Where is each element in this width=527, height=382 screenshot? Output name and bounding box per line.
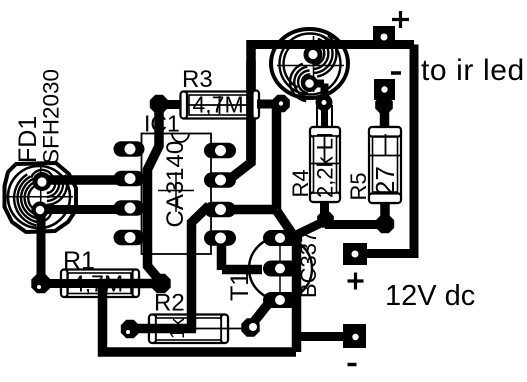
- IC1 pads left column pins 1-4: [114, 141, 145, 245]
- svg-text:CA3140: CA3140: [162, 141, 189, 228]
- wire R4 top lead: [321, 95, 329, 128]
- svg-text:R3: R3: [182, 66, 213, 93]
- pad R1 left: [31, 274, 50, 293]
- resistor R3 body: [181, 92, 259, 119]
- wire R3 right lead to node: [255, 100, 276, 109]
- node junction R3-left: [150, 95, 168, 113]
- wire node A vertical (R3-right to T1 junction): [272, 104, 282, 210]
- transistor T1 lead line: [279, 238, 281, 300]
- pad FD1 anode: [33, 172, 52, 191]
- op-amp IC1 outline: [142, 134, 212, 255]
- node junction R1-right: [151, 274, 170, 293]
- wire left frame from top rail down to IC pin7 pad: [233, 40, 251, 177]
- transistor T1 outline: [249, 237, 312, 300]
- svg-text:SFH2030: SFH2030: [39, 69, 64, 164]
- IC1 pads right column pins 5-8: [204, 143, 236, 246]
- wire IC pin6 to junction horizontal: [228, 205, 277, 215]
- wire R1 lead through body: [41, 279, 161, 288]
- wire FD1 anode to IC pin2: [42, 175, 125, 185]
- label - ir: [391, 71, 401, 75]
- label + 12V: [348, 273, 364, 290]
- wire R4 junction to T1 collector diagonal: [293, 221, 326, 237]
- wire R3 lead line thin: [186, 96, 252, 114]
- svg-text:to ir led: to ir led: [421, 54, 525, 87]
- pad trimmer top: [304, 45, 323, 64]
- pad R2 right: [241, 318, 259, 336]
- label + top: [392, 11, 409, 28]
- terminal pad +12V: [343, 243, 367, 265]
- wire trimmer bottom pad hook to R4 top: [309, 84, 325, 100]
- svg-text:IC1: IC1: [144, 111, 180, 137]
- trimmer coil outline: [271, 29, 348, 98]
- wire node R3-left down to R1-right junction: [148, 100, 162, 282]
- svg-text:T1: T1: [226, 272, 254, 301]
- wire junction to T1 collector pad diagonal: [277, 211, 294, 236]
- node junction R5 bottom: [376, 215, 394, 233]
- resistor R5 body: [369, 127, 401, 203]
- svg-text:1k: 1k: [167, 317, 189, 339]
- wire R5 top lead from -ir pad: [380, 99, 390, 128]
- wire ground U: R1 junction left, down, bottom rail: [103, 284, 297, 353]
- terminal pad - to ir led: [374, 79, 395, 100]
- pad R2 left: [121, 320, 139, 338]
- resistor R2 body: [149, 315, 228, 344]
- pad T1 collector: [263, 230, 298, 246]
- wire FD1 cathode to IC pin3: [41, 205, 125, 214]
- node junction R4 bottom: [317, 211, 334, 228]
- photodiode FD1 outline: [4, 163, 77, 232]
- svg-text:12V dc: 12V dc: [385, 280, 475, 312]
- label - 12V: [348, 363, 357, 367]
- wire left frame over R3: [246, 60, 256, 160]
- wire R4 bottom to R5 bottom horizontal: [325, 220, 384, 229]
- wire R3 left lead: [159, 100, 183, 109]
- wire R2 lead line thin: [196, 328, 243, 330]
- wire FD1 cathode down to R1 left: [37, 211, 46, 280]
- wire R4 bottom lead: [320, 201, 329, 216]
- terminal pad + to ir led: [373, 26, 395, 46]
- pad T1 emitter: [263, 292, 298, 308]
- wire R2 right pad to T1 emitter diagonal: [251, 304, 268, 326]
- pad FD1 cathode: [32, 202, 49, 219]
- wire T1 base to IC pin5: [222, 239, 263, 270]
- node junction R5 top: [375, 96, 393, 114]
- pad trimmer bottom: [301, 75, 318, 92]
- wire top V+ rail with right frame down to +12V pad: [247, 45, 414, 254]
- wire T1 emitter down to bottom rail: [292, 234, 302, 352]
- wire IC pin6 to R2 vertical: [192, 206, 210, 332]
- wire R5 bottom lead: [380, 202, 390, 219]
- resistor R1 body: [61, 270, 139, 298]
- svg-text:R1: R1: [63, 247, 95, 275]
- wire R4 lead line thin: [310, 134, 340, 164]
- wire R1 trace over body: [41, 279, 161, 288]
- resistor R3 right cap redraw: [253, 91, 260, 119]
- terminal pad -12V: [343, 324, 366, 348]
- svg-text:BC337: BC337: [296, 231, 321, 298]
- wire branch to -12V pad: [294, 332, 345, 341]
- svg-text:R4: R4: [288, 169, 313, 197]
- wire R2 left lead through body: [130, 324, 196, 334]
- pad R4 top: [316, 94, 333, 111]
- svg-text:R5: R5: [346, 172, 371, 200]
- node junction above T1: [272, 95, 290, 113]
- resistor R4 body: [310, 104, 340, 202]
- wire R5 lead line thin: [369, 134, 401, 156]
- svg-text:R2: R2: [154, 290, 185, 317]
- photodiode FD1 spiral arcs: [14, 170, 67, 225]
- pad T1 base: [263, 261, 298, 277]
- trimmer coil spiral arcs: [284, 36, 337, 102]
- svg-text:27: 27: [370, 166, 400, 195]
